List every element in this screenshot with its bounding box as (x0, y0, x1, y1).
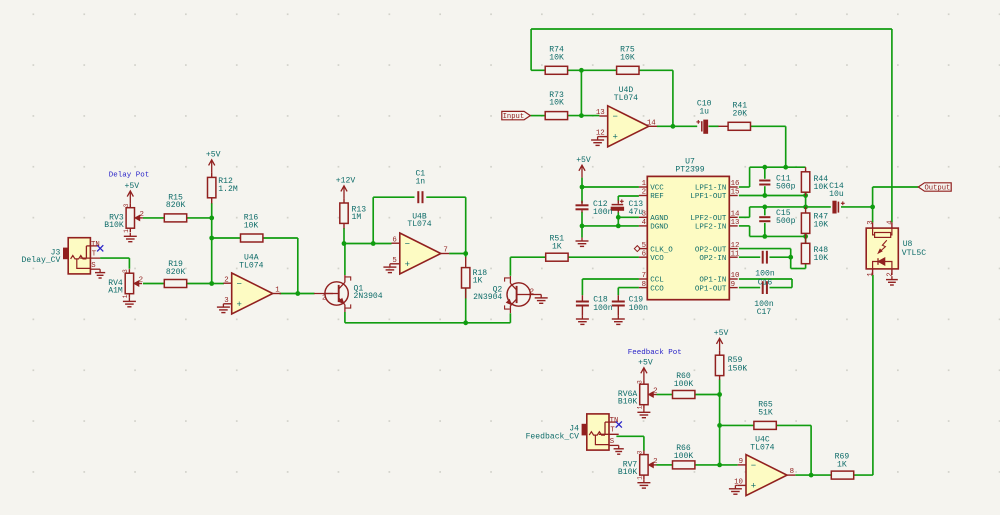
svg-text:B10K: B10K (104, 221, 124, 230)
svg-text:1K: 1K (552, 243, 562, 252)
svg-text:CCO: CCO (650, 285, 664, 293)
svg-text:11: 11 (731, 250, 740, 258)
svg-text:+: + (237, 300, 242, 310)
svg-text:C17: C17 (757, 308, 772, 317)
svg-text:3: 3 (122, 269, 129, 273)
svg-text:VCC: VCC (650, 185, 664, 193)
svg-text:3: 3 (123, 203, 130, 207)
svg-text:3: 3 (636, 380, 643, 384)
svg-text:1: 1 (122, 294, 129, 298)
svg-text:10K: 10K (814, 221, 829, 230)
svg-text:VCO: VCO (650, 255, 664, 263)
svg-text:LPF1-OUT: LPF1-OUT (690, 193, 727, 201)
svg-text:TL074: TL074 (239, 261, 263, 270)
svg-text:+5V: +5V (576, 156, 591, 165)
svg-text:T: T (610, 427, 615, 435)
svg-text:14: 14 (731, 211, 740, 219)
svg-text:100K: 100K (674, 380, 694, 389)
svg-text:OP1-OUT: OP1-OUT (695, 285, 727, 293)
svg-text:3: 3 (867, 220, 875, 224)
svg-text:2: 2 (139, 211, 143, 219)
svg-text:+5V: +5V (125, 182, 140, 191)
svg-text:+5V: +5V (714, 329, 729, 338)
svg-text:1.2M: 1.2M (218, 185, 238, 194)
svg-text:1K: 1K (473, 277, 483, 286)
svg-text:16: 16 (731, 180, 740, 188)
svg-text:14: 14 (647, 119, 656, 127)
svg-text:S: S (91, 262, 96, 270)
svg-text:1: 1 (636, 476, 643, 480)
svg-text:LPF2-OUT: LPF2-OUT (690, 215, 727, 223)
svg-text:820K: 820K (166, 201, 186, 210)
svg-text:100n: 100n (593, 208, 613, 217)
svg-text:5: 5 (642, 242, 646, 250)
svg-text:3: 3 (636, 450, 643, 454)
svg-text:100n: 100n (593, 304, 613, 313)
svg-text:LPF1-IN: LPF1-IN (695, 185, 727, 193)
svg-text:100K: 100K (674, 452, 694, 461)
svg-text:100n: 100n (755, 269, 775, 278)
svg-text:6: 6 (392, 236, 396, 244)
svg-text:100n: 100n (629, 304, 649, 313)
svg-text:TL074: TL074 (407, 220, 431, 229)
svg-text:Feedback Pot: Feedback Pot (628, 349, 682, 357)
svg-text:+: + (613, 133, 618, 143)
svg-text:4: 4 (642, 219, 647, 227)
svg-text:REF: REF (650, 193, 664, 201)
svg-text:2: 2 (322, 295, 326, 303)
svg-text:3: 3 (224, 297, 228, 305)
svg-text:2: 2 (653, 458, 657, 466)
svg-text:5: 5 (392, 257, 396, 265)
svg-text:2: 2 (653, 388, 657, 396)
svg-text:2: 2 (530, 289, 534, 297)
svg-text:10K: 10K (814, 254, 829, 263)
svg-text:15: 15 (731, 189, 740, 197)
svg-text:TN: TN (91, 241, 100, 249)
svg-text:+12V: +12V (336, 177, 356, 186)
svg-text:1M: 1M (352, 213, 362, 222)
svg-text:TL074: TL074 (614, 94, 638, 103)
svg-text:12: 12 (731, 242, 740, 250)
svg-text:Delay Pot: Delay Pot (109, 172, 150, 180)
svg-text:500p: 500p (776, 217, 796, 226)
svg-text:10K: 10K (244, 221, 259, 230)
svg-text:CLK_O: CLK_O (650, 246, 673, 254)
svg-text:13: 13 (596, 109, 605, 117)
svg-text:500p: 500p (776, 183, 796, 192)
svg-text:1n: 1n (415, 177, 425, 186)
svg-text:9: 9 (739, 458, 743, 466)
svg-text:1: 1 (275, 287, 280, 295)
svg-text:2: 2 (642, 189, 646, 197)
svg-text:10: 10 (731, 272, 740, 280)
svg-text:1K: 1K (837, 461, 847, 470)
svg-text:OP2-OUT: OP2-OUT (695, 246, 727, 254)
svg-text:S: S (610, 438, 615, 446)
svg-text:1: 1 (123, 229, 130, 233)
svg-text:8: 8 (790, 468, 794, 476)
svg-text:20K: 20K (733, 110, 748, 119)
svg-text:A1M: A1M (108, 287, 123, 296)
svg-text:B10K: B10K (618, 468, 638, 477)
svg-text:7: 7 (443, 247, 447, 255)
svg-text:C16: C16 (758, 278, 773, 287)
svg-text:B10K: B10K (618, 398, 638, 407)
svg-text:2N3904: 2N3904 (473, 293, 502, 302)
svg-text:PT2399: PT2399 (675, 166, 704, 175)
svg-text:51K: 51K (758, 409, 773, 418)
svg-text:2N3904: 2N3904 (354, 292, 383, 301)
svg-text:47u: 47u (629, 208, 644, 217)
svg-text:6: 6 (642, 250, 646, 258)
svg-text:+5V: +5V (638, 359, 653, 368)
svg-text:13: 13 (731, 219, 740, 227)
svg-text:Delay_CV: Delay_CV (22, 256, 61, 265)
svg-text:10K: 10K (620, 53, 635, 62)
svg-text:7: 7 (642, 272, 646, 280)
svg-text:2: 2 (887, 272, 895, 276)
svg-text:+5V: +5V (206, 151, 221, 160)
svg-text:−: − (613, 112, 618, 122)
svg-text:1: 1 (636, 405, 643, 409)
svg-text:OP2-IN: OP2-IN (699, 255, 726, 263)
svg-text:TL074: TL074 (750, 444, 774, 453)
svg-text:8: 8 (642, 281, 646, 289)
svg-text:10K: 10K (549, 53, 564, 62)
svg-text:2: 2 (224, 276, 228, 284)
svg-text:1: 1 (642, 180, 647, 188)
svg-text:LPF2-IN: LPF2-IN (695, 224, 727, 232)
svg-text:−: − (237, 279, 242, 289)
svg-text:+: + (751, 482, 756, 492)
svg-text:10K: 10K (814, 183, 829, 192)
svg-text:U8: U8 (903, 240, 913, 249)
svg-text:1u: 1u (699, 108, 709, 117)
svg-text:10K: 10K (549, 99, 564, 108)
svg-text:DGND: DGND (650, 224, 669, 232)
svg-text:−: − (751, 461, 756, 471)
svg-text:4: 4 (887, 220, 895, 224)
svg-text:820K: 820K (166, 268, 186, 277)
svg-text:1: 1 (867, 272, 875, 276)
svg-text:TN: TN (610, 417, 619, 425)
svg-text:OP1-IN: OP1-IN (699, 277, 726, 285)
svg-text:Input: Input (503, 113, 525, 121)
svg-text:150K: 150K (728, 364, 748, 373)
svg-text:Output: Output (924, 185, 950, 193)
svg-text:AGND: AGND (650, 215, 669, 223)
svg-text:+: + (405, 260, 410, 270)
svg-text:9: 9 (731, 281, 735, 289)
svg-text:CCL: CCL (650, 277, 664, 285)
svg-text:Feedback_CV: Feedback_CV (526, 432, 580, 441)
svg-text:12: 12 (596, 130, 605, 138)
svg-text:VTL5C: VTL5C (902, 249, 926, 258)
svg-text:10u: 10u (829, 190, 844, 199)
svg-text:−: − (405, 239, 410, 249)
svg-text:T: T (92, 250, 97, 258)
svg-text:2: 2 (139, 277, 143, 285)
